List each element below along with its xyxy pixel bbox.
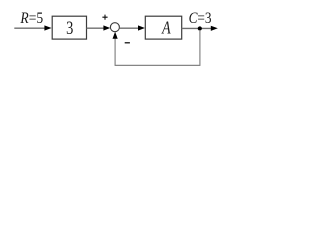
output arrowhead — [211, 26, 218, 31]
summing junction — [110, 23, 119, 32]
svg-text:R=5: R=5 — [19, 10, 43, 27]
output wire C — [182, 27, 212, 29]
feedback wire down from node — [199, 30, 201, 65]
minus sign — [125, 42, 130, 44]
wire block3 to summer — [87, 27, 105, 29]
input arrowhead — [44, 25, 51, 30]
feedback wire bottom horizontal — [115, 64, 201, 66]
node dot (takeoff point) — [198, 26, 202, 30]
svg-text:3: 3 — [66, 17, 73, 38]
wire summer to block A — [119, 27, 138, 29]
svg-text:A: A — [161, 19, 171, 38]
arrowhead into summer — [103, 25, 110, 30]
input wire R — [14, 27, 46, 29]
feedback wire up to summer — [114, 37, 116, 65]
block A — [145, 16, 181, 39]
plus sign — [102, 15, 107, 20]
arrowhead into summer bottom — [113, 32, 118, 39]
block G1 value 3 — [52, 16, 86, 39]
arrowhead into block A — [138, 25, 145, 30]
svg-text:C=3: C=3 — [189, 10, 212, 27]
